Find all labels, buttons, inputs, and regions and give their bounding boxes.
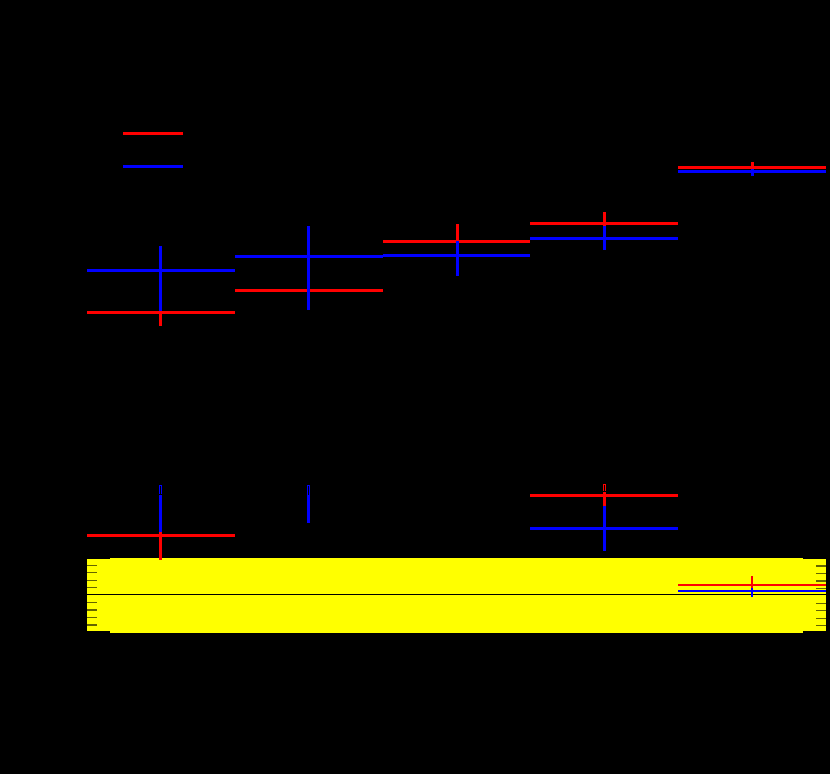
bin3 blue vertical error bar <box>456 241 459 276</box>
lower bin1 blue vertical error bar <box>159 495 162 533</box>
bin4 blue vertical error bar <box>603 226 606 250</box>
lower bin5 red vertical error bar (in band) <box>751 576 753 589</box>
olive minor ticks left (under band) <box>87 565 97 566</box>
lower bin4 blue vertical error bar <box>603 506 606 551</box>
black ratio=1 line <box>87 594 826 595</box>
lower bin1 blue staple top (hollow) <box>159 485 162 495</box>
bin5 red vertical error bar <box>751 162 754 171</box>
bin2 blue vertical error bar <box>307 226 310 310</box>
lower bin4 blue horizontal bar <box>530 527 678 530</box>
bin4 blue horizontal bar <box>530 237 678 240</box>
lower bin2 blue vertical error bar <box>307 495 310 523</box>
olive minor ticks right (under band) <box>816 565 826 566</box>
bin4 red horizontal bar <box>530 222 678 225</box>
bin1 red horizontal bar <box>87 311 235 314</box>
black major tick notch top-right <box>803 558 826 559</box>
lower bin1 red vertical error bar <box>159 532 162 560</box>
yellow uncertainty band (ratio panel) <box>87 558 826 633</box>
lower bin5 blue horizontal bar (in band) <box>678 590 826 592</box>
bin4 red vertical error bar <box>603 212 606 226</box>
bin5 blue horizontal bar <box>678 170 826 173</box>
black major tick notch bottom-right <box>803 631 826 632</box>
bin1 blue horizontal bar <box>87 269 235 272</box>
bin1 blue vertical error bar <box>159 246 162 311</box>
bin1 red vertical error bar <box>159 299 162 326</box>
lower bin2 blue staple top (hollow) <box>307 485 310 495</box>
bin2 blue horizontal bar <box>235 255 383 258</box>
legend blue line <box>123 165 183 168</box>
bin5 blue vertical error bar <box>751 169 754 176</box>
bin3 red horizontal bar <box>383 240 531 243</box>
bin2 red vertical error bar (mostly hidden) <box>307 276 310 306</box>
lower bin4 red horizontal bar <box>530 494 678 497</box>
lower bin4 red vertical error bar <box>603 492 606 506</box>
bin5 red horizontal bar <box>678 166 826 169</box>
lower bin1 red horizontal bar <box>87 534 235 537</box>
black major tick notch top-left <box>87 558 110 559</box>
bin3 red vertical error bar <box>456 224 459 243</box>
bin2 red horizontal bar <box>235 289 383 292</box>
lower bin5 blue vertical error bar (in band) <box>751 588 753 597</box>
lower bin5 red horizontal bar (in band) <box>678 584 826 586</box>
lower bin4 red staple top (hollow) <box>603 484 606 491</box>
bin3 blue horizontal bar <box>383 254 531 257</box>
legend red line <box>123 132 183 135</box>
black major tick notch bottom-left <box>87 631 110 632</box>
